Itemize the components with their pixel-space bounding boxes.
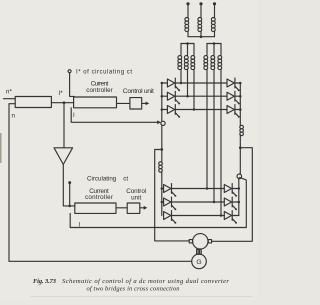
ct sensor left (161, 121, 165, 125)
caption line 1 (62, 278, 229, 285)
wire right phase a drop (206, 69, 208, 188)
label control unit U3 (123, 88, 154, 95)
wire U5 output arrow (140, 206, 148, 210)
wire cathode link upper-right T4 (235, 82, 240, 84)
svg-text:ct: ct (123, 176, 128, 183)
node lower right bus row2 (238, 201, 241, 204)
wire left bus to reactor (161, 150, 163, 163)
terminal phase 1 (186, 2, 189, 5)
thyristor T10 lower-right (224, 184, 237, 197)
node right phase b joint (213, 201, 216, 204)
svg-text:controller: controller (86, 87, 113, 94)
terminal phase 3 (213, 2, 216, 5)
wire right bus below reactor (239, 135, 241, 175)
control unit U5 box (127, 203, 140, 213)
node left output junction (160, 148, 163, 151)
wire secondary stub x187.5 (187, 44, 189, 56)
node n* label (6, 89, 12, 96)
node I* label (59, 90, 64, 97)
wire cathode link lower-right T10 (232, 188, 239, 190)
node left secondary tap (186, 42, 189, 45)
svg-text:Control unit: Control unit (123, 88, 154, 95)
node upper right bus row3 (239, 108, 242, 111)
wire secondary stub x207 (206, 44, 208, 56)
wire amplifier output (63, 164, 75, 206)
wire tacho feedback (9, 260, 192, 262)
current controller U2 box (74, 97, 117, 108)
thyristor T4 upper-right (227, 78, 240, 91)
thyristor T1 upper-left (167, 78, 180, 91)
node left phase c joint (193, 108, 196, 111)
node upper right bus row2 (239, 95, 242, 98)
node upper left bus top (161, 82, 164, 85)
label circulating ct (87, 176, 128, 183)
wire phase 1 to star (187, 31, 189, 37)
node right secondary tap (213, 42, 216, 45)
node I* junction (63, 101, 66, 104)
tachogenerator G (192, 254, 207, 269)
inductor primary L3 (211, 18, 215, 32)
svg-text:I*: I* (59, 90, 64, 97)
svg-text:n*: n* (6, 89, 12, 96)
thyristor T2 upper-left (167, 91, 180, 104)
node lower right bus row1 (238, 187, 241, 190)
svg-text:controller: controller (85, 194, 113, 201)
wire I* to amplifier (63, 103, 65, 148)
wire circulating ct reference (70, 73, 75, 97)
inductor secondary x207 (204, 56, 208, 70)
node left phase a joint (180, 82, 183, 85)
wire left secondary bar (181, 43, 194, 45)
wire secondary stub x194 (193, 44, 195, 56)
inductor secondary x221 (218, 56, 222, 70)
node lower left bus row2 (161, 201, 164, 204)
thyristor T5 upper-right (227, 91, 240, 104)
wire n* input (4, 98, 16, 100)
wire right output branch (212, 148, 253, 242)
inductor reactor right (240, 125, 244, 135)
wire star bar (188, 36, 215, 38)
inductor secondary x194 (191, 56, 195, 70)
wire cathode link upper-right T6 (235, 109, 240, 111)
svg-text:I: I (73, 112, 75, 119)
wire right phase c drop (220, 69, 222, 215)
node right output junction (239, 146, 242, 149)
edge smudge left (0, 133, 2, 163)
wire secondary stub x221 (220, 44, 222, 56)
inductor primary L1 (185, 18, 189, 32)
svg-text:unit: unit (131, 194, 141, 201)
node upper left bus row2 (161, 95, 164, 98)
thyristor T6 upper-right (227, 105, 240, 118)
wire lower right bus (238, 178, 240, 215)
node right phase a joint (206, 187, 209, 190)
wire secondary stub x181 (180, 44, 182, 56)
svg-text:Circulating: Circulating (87, 176, 117, 183)
wire row 3 lower (172, 215, 225, 217)
svg-text:Fig. 3.73: Fig. 3.73 (33, 278, 57, 285)
svg-text:of two bridges in cross connec: of two bridges in cross connection (87, 286, 180, 293)
wire upper left bus (161, 83, 163, 121)
wire cathode link upper-right T5 (235, 95, 240, 97)
edge rule bottom (30, 296, 252, 297)
node right phase c joint (220, 214, 223, 217)
wire I* output of speed controller (51, 102, 73, 104)
current controller U4 box (75, 203, 116, 213)
control unit U3 box (130, 98, 142, 109)
node upper left bus row3 (161, 108, 164, 111)
label current controller U4 (85, 188, 113, 201)
wire I feedback lower (70, 178, 246, 228)
wire right phase b drop (213, 69, 215, 202)
wire secondary stub x214 (213, 44, 215, 56)
motor M armature (193, 234, 208, 249)
motor right terminal (208, 240, 211, 243)
node I label lower (79, 221, 81, 228)
wire U2 to U3 (117, 102, 130, 104)
node circulating junction (68, 205, 71, 208)
wire left phase c drop (193, 69, 195, 109)
background paper (0, 0, 257, 300)
shaft coupling (197, 249, 202, 254)
node n label (12, 113, 16, 120)
wire phase 3 to star (214, 31, 216, 37)
svg-text:n: n (12, 113, 16, 120)
thyristor T7 lower-left (164, 184, 177, 197)
wire phase 2 drop (200, 5, 202, 17)
label control unit U5 (126, 188, 146, 202)
wire circulating ct input (69, 184, 71, 206)
svg-text:I: I (79, 221, 81, 228)
wire lower left bus (161, 189, 163, 216)
node star junction (200, 35, 203, 38)
wire phase 2 to star (200, 31, 202, 37)
speed controller U1 box (15, 97, 51, 108)
terminal circulating ct (68, 181, 71, 184)
wire U4 to U5 (116, 207, 127, 209)
thyristor T12 lower-right (224, 211, 237, 224)
ct sensor right (237, 174, 242, 179)
node left phase b joint (186, 95, 189, 98)
wire phase 1 drop (187, 5, 189, 17)
wire left bus through ct (161, 126, 163, 150)
terminal I* of circulating ct (68, 70, 71, 73)
caption line 2 (87, 286, 180, 293)
inductor primary L2 (198, 18, 202, 32)
svg-text:G: G (196, 259, 201, 266)
arrowhead I feedback (157, 120, 161, 124)
wire row 2 upper (175, 95, 227, 97)
wire left bus below reactor (161, 172, 163, 188)
op-amp A1 triangle (54, 148, 73, 165)
inductor secondary x187.5 (184, 56, 188, 70)
wire row 1 upper (175, 82, 227, 84)
svg-text:Schematic of control of a dc m: Schematic of control of a dc motor using… (62, 278, 229, 285)
wire cathode link lower-right T11 (232, 201, 239, 203)
wire n feedback riser (9, 104, 15, 262)
wire cathode link lower-right T12 (232, 215, 239, 217)
node I label (73, 112, 75, 119)
wire anode stub upper-left T1 (162, 82, 168, 84)
wire row 2 lower (172, 201, 225, 203)
node right ct junction (239, 177, 241, 179)
inductor reactor left (159, 162, 163, 172)
node lower left bus row1 (161, 187, 164, 190)
wire row 3 upper (175, 109, 227, 111)
wire anode stub upper-left T3 (162, 109, 168, 111)
wire anode stub upper-left T2 (162, 95, 168, 97)
wire right secondary bar (207, 43, 221, 45)
wire U3 output arrow (142, 102, 150, 106)
caption figure number (33, 278, 57, 285)
svg-text:I* of circulating ct: I* of circulating ct (76, 70, 132, 76)
wire phase 3 drop (214, 5, 216, 17)
thyristor T3 upper-left (167, 105, 180, 118)
wire I feedback to current controller (71, 108, 157, 123)
terminal phase 2 (199, 2, 202, 5)
wire row 1 lower (172, 188, 225, 190)
motor left terminal (189, 240, 192, 243)
label current controller U2 (86, 81, 113, 94)
node upper right bus top (239, 82, 242, 85)
thyristor T11 lower-right (224, 197, 237, 210)
wire left phase a drop (180, 69, 182, 83)
inductor secondary x181 (178, 56, 182, 70)
thyristor T8 lower-left (164, 197, 177, 210)
label I* of circulating ct (76, 70, 132, 76)
wire left output branch (155, 150, 190, 241)
wire left phase b drop (187, 69, 189, 96)
wire upper right bus (239, 83, 241, 125)
inductor secondary x214 (211, 56, 215, 70)
thyristor T9 lower-left (164, 211, 177, 224)
